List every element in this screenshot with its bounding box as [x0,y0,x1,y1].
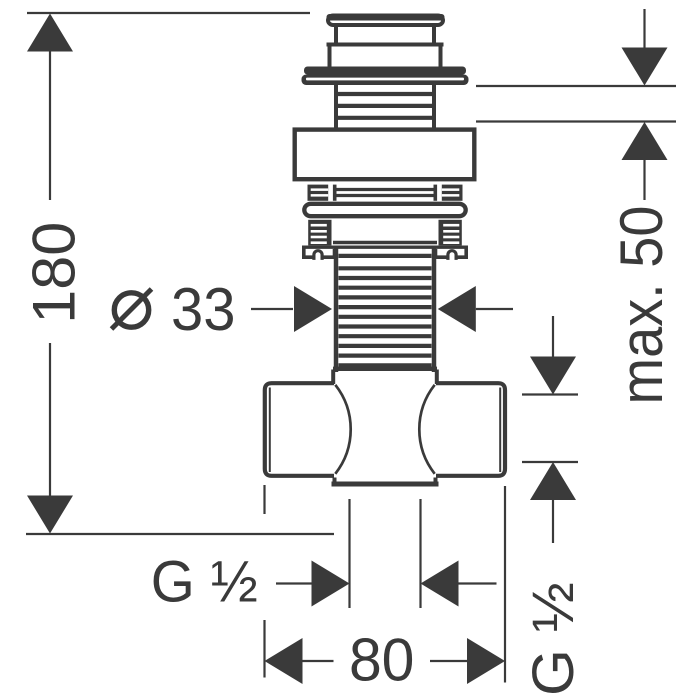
svg-text:80: 80 [349,627,415,694]
svg-text:G ½: G ½ [521,582,586,696]
svg-text:180: 180 [21,222,88,324]
svg-text:G ½: G ½ [151,550,258,615]
svg-text:max. 50: max. 50 [608,206,675,405]
svg-text:33: 33 [171,276,236,343]
